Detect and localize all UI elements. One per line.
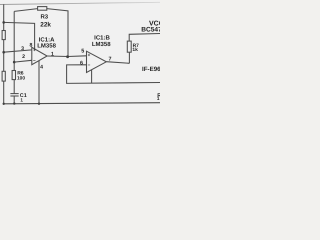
svg-text:8: 8 <box>30 42 33 48</box>
svg-text:−: − <box>33 58 36 63</box>
svg-text:1: 1 <box>157 96 160 102</box>
svg-text:1: 1 <box>20 97 23 102</box>
wire R7 bottom lead <box>128 52 130 63</box>
node pin 4 / bottom rail junction <box>38 103 40 105</box>
wire V+ to pin 8 <box>4 22 35 49</box>
svg-text:−: − <box>88 62 91 67</box>
wire R3 feedback top <box>14 9 37 12</box>
wire pin 2 input <box>14 60 32 62</box>
resistor (unlabeled) on left rail upper <box>2 31 5 40</box>
svg-text:LM358: LM358 <box>92 41 111 48</box>
node left rail / pin 3 junction <box>2 51 5 54</box>
svg-text:+: + <box>33 47 36 52</box>
wire left rail <box>3 4 5 104</box>
svg-text:IF-E96: IF-E96 <box>142 66 160 73</box>
node left rail / bottom rail corner <box>3 103 5 105</box>
op-amp IC1:B triangle <box>87 51 107 72</box>
node op-amp A output / feedback junction <box>66 55 69 58</box>
svg-text:+: + <box>88 52 91 57</box>
node pin 2 / R6 / feedback junction <box>13 61 16 64</box>
wire feedback vertical <box>13 11 15 62</box>
svg-text:R3: R3 <box>40 13 48 20</box>
svg-text:BC547: BC547 <box>141 25 160 33</box>
svg-text:100: 100 <box>17 76 25 81</box>
svg-text:R6: R6 <box>17 70 23 76</box>
svg-text:1k: 1k <box>132 47 137 53</box>
svg-text:22k: 22k <box>40 21 51 28</box>
svg-text:IC1:A: IC1:A <box>39 36 55 43</box>
resistor R7 <box>127 41 131 52</box>
op-amp IC1:A triangle <box>32 47 47 64</box>
wire op-amp B output pin 7 <box>106 62 129 64</box>
wire pin 4 to bottom rail <box>38 61 40 104</box>
svg-text:2: 2 <box>22 54 25 60</box>
wire pin 6 loop and output line to right edge <box>67 65 160 84</box>
svg-text:7: 7 <box>108 56 111 62</box>
node left rail / V+ branch junction <box>2 21 5 24</box>
svg-text:LM358: LM358 <box>37 42 56 49</box>
svg-text:6: 6 <box>80 60 83 66</box>
wire pin 3 input <box>4 50 32 52</box>
resistor R3 <box>38 7 47 11</box>
svg-text:4: 4 <box>40 64 43 70</box>
svg-text:IC1:B: IC1:B <box>94 34 110 41</box>
svg-text:5: 5 <box>81 48 84 54</box>
resistor R6 <box>12 71 15 80</box>
capacitor C1 <box>10 93 18 95</box>
svg-text:1: 1 <box>51 51 54 57</box>
wire feedback to op-amp B edge <box>91 70 93 84</box>
wire R7 top lead to VCC rail <box>129 34 160 42</box>
wire op-amp A output to pin 5 <box>47 55 86 58</box>
resistor (unlabeled) on left rail lower <box>2 71 5 81</box>
wire R6 chain <box>13 62 15 70</box>
svg-text:3: 3 <box>21 46 24 52</box>
node C1 / bottom rail junction <box>13 102 15 104</box>
wire bottom rail <box>4 103 160 104</box>
